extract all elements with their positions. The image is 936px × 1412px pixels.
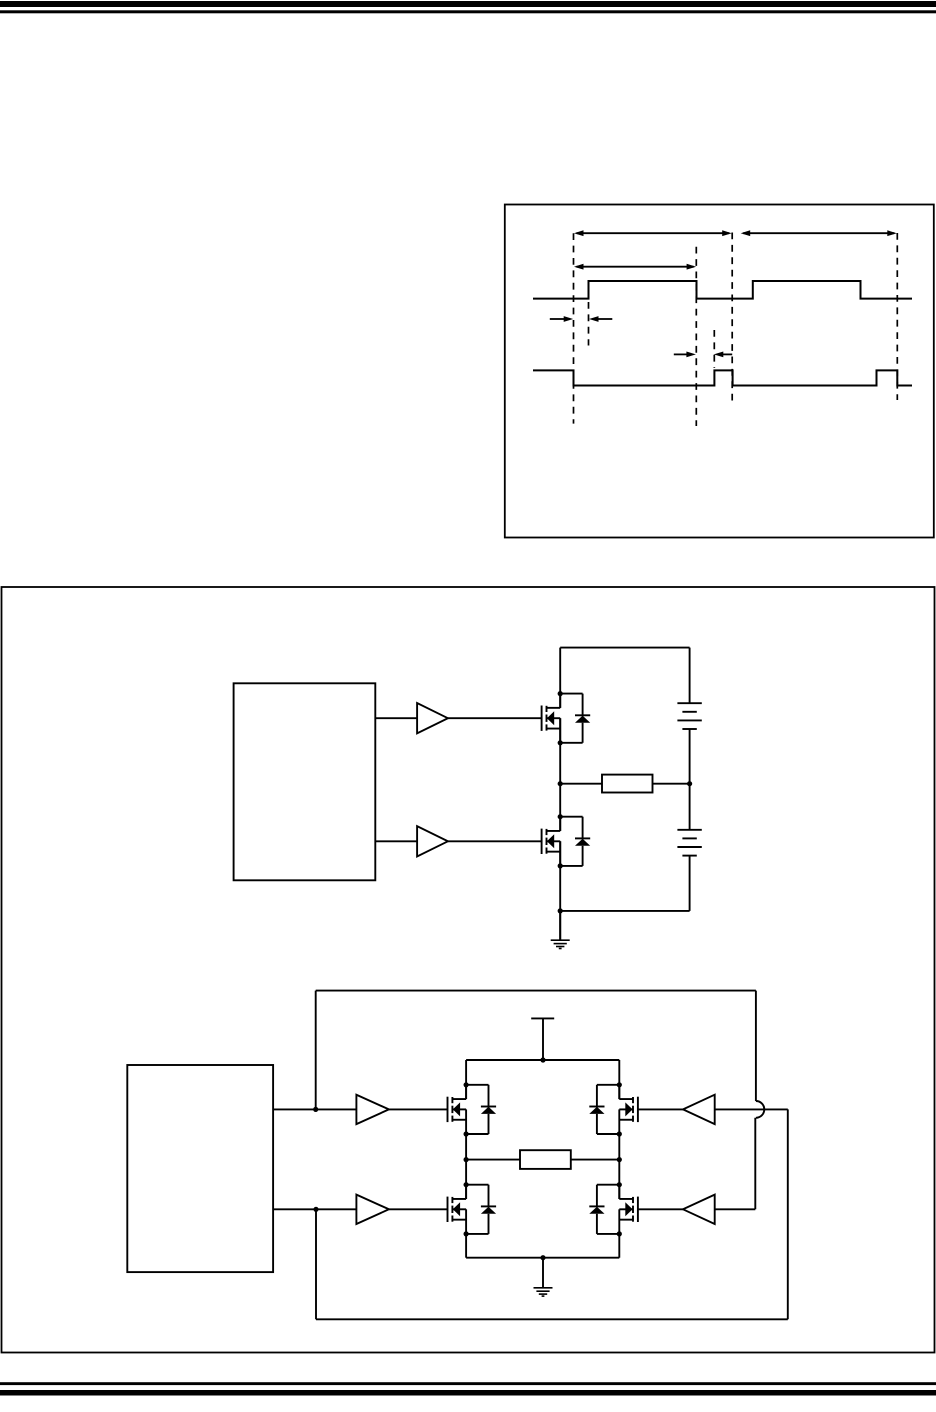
wire Q3 drain to positive rail xyxy=(465,1060,467,1099)
IC U1 (half-bridge driver) xyxy=(234,683,376,880)
body diode of Q1 xyxy=(560,694,590,743)
wire ground rail (bottom) xyxy=(560,910,689,912)
wire A3 output to Q3 gate xyxy=(389,1108,448,1110)
wire bridge ground rail xyxy=(466,1257,619,1259)
wire left phase column (Q3 source to Q5 drain) xyxy=(465,1134,467,1199)
transistor Q6 (N-MOSFET) xyxy=(619,1185,638,1234)
node: left phase junction xyxy=(464,1157,469,1162)
transistor Q1 (N-MOSFET) xyxy=(542,694,561,743)
timing mark t4 (dashed) xyxy=(731,233,733,405)
period arrow (second cycle) xyxy=(741,230,897,236)
wire A1 output to Q1 gate xyxy=(448,717,542,719)
delay arrow pair at t0/t1 xyxy=(550,316,613,322)
output waveform trace xyxy=(533,370,912,385)
Q5 drain junction xyxy=(464,1182,469,1187)
resistor R2 (bridge load) xyxy=(520,1150,571,1169)
buffer A2 xyxy=(417,826,448,856)
input waveform trace xyxy=(533,281,912,299)
wire Q1 drain to positive rail xyxy=(559,648,561,708)
wire right phase column (Q4 source to Q6 drain) xyxy=(618,1134,620,1199)
wire U1 output A to buffer A1 xyxy=(375,717,417,719)
delay arrow pair at t2/t3 xyxy=(674,352,732,358)
wire Q5 source to ground rail xyxy=(465,1234,467,1258)
Q6 source junction xyxy=(617,1231,622,1236)
body diode of Q3 xyxy=(466,1085,496,1134)
body diode of Q4 xyxy=(589,1085,619,1134)
wire A5 output to Q4 gate xyxy=(638,1108,683,1110)
wire phase node to load resistor xyxy=(560,783,602,785)
wire Q4 drain to positive rail xyxy=(618,1060,620,1099)
node: phase output junction xyxy=(558,781,563,786)
wire A6 output to Q6 gate xyxy=(638,1208,683,1210)
wire Q6 source to ground rail xyxy=(618,1234,620,1258)
timing mark t0 (dashed) xyxy=(573,233,575,423)
wire load resistor R2 to right phase xyxy=(571,1159,620,1161)
supply terminal V+ xyxy=(531,1018,554,1060)
battery B1 (upper supply) xyxy=(677,648,701,784)
node: ground rail center junction xyxy=(540,1255,545,1260)
wire feedback to inverter A6 input xyxy=(715,1208,756,1210)
wire U2 output B to buffer A4 xyxy=(273,1208,356,1210)
ground symbol GND1 xyxy=(551,911,570,949)
battery B2 (lower supply) xyxy=(677,784,701,911)
ground symbol GND2 xyxy=(534,1258,553,1296)
node: V+ rail junction xyxy=(540,1057,545,1062)
resistor R1 (load) xyxy=(602,775,653,793)
wire U1 output B to buffer A2 xyxy=(375,840,417,842)
timing mark t1 (dashed) xyxy=(588,302,590,346)
wire crossover hop (no connection) xyxy=(756,1101,764,1118)
Q3 source junction xyxy=(464,1131,469,1136)
Q4 source junction xyxy=(617,1131,622,1136)
transistor Q2 (N-MOSFET) xyxy=(542,817,561,866)
buffer A1 xyxy=(417,703,448,733)
period arrow (t0 to t4) xyxy=(574,230,732,236)
timing mark t3 (dashed) xyxy=(713,330,715,368)
wire feedback: down right side to crossover xyxy=(755,991,757,1101)
Q3 drain junction xyxy=(464,1082,469,1087)
inverter A5 (drives Q4 gate) xyxy=(683,1095,715,1124)
Q5 source junction xyxy=(464,1231,469,1236)
wire Q1 source to Q2 drain (phase node) xyxy=(559,718,561,831)
on-time arrow (t0 to t2) xyxy=(574,264,696,270)
wire positive rail (top) xyxy=(560,647,689,649)
Q1 drain junction xyxy=(558,691,563,696)
inverter A6 (drives Q6 gate) xyxy=(683,1195,715,1224)
wire Q2 source to ground rail xyxy=(559,841,561,940)
body diode of Q6 xyxy=(589,1185,619,1234)
wire A2 output to Q2 gate xyxy=(448,840,542,842)
wire load resistor to battery midpoint xyxy=(653,783,690,785)
wire feedback: output B down xyxy=(315,1209,317,1319)
transistor Q4 (N-MOSFET) xyxy=(619,1085,638,1134)
node: ground rail junction xyxy=(558,908,563,913)
buffer A4 xyxy=(356,1195,389,1224)
wire feedback: below crossover to A6 level xyxy=(754,1118,756,1210)
wire feedback to inverter A5 input xyxy=(715,1108,788,1110)
timing mark t2 (dashed) xyxy=(695,247,697,426)
wire left phase to load resistor R2 xyxy=(466,1159,520,1161)
wire U2 output A to buffer A3 xyxy=(273,1108,356,1110)
wire bridge positive rail xyxy=(466,1059,619,1061)
timing mark t5 (dashed) xyxy=(896,233,898,400)
transistor Q5 (N-MOSFET) xyxy=(448,1185,467,1234)
node: battery midpoint junction xyxy=(687,781,692,786)
Q2 source junction xyxy=(558,863,563,868)
Q4 drain junction xyxy=(617,1082,622,1087)
wire A4 output to Q5 gate xyxy=(389,1208,448,1210)
wire feedback: output B across bottom xyxy=(316,1318,788,1320)
node: right phase junction xyxy=(617,1157,622,1162)
Q2 drain junction xyxy=(558,814,563,819)
buffer A3 xyxy=(356,1095,389,1124)
wire feedback: output A up xyxy=(315,991,317,1110)
wire feedback: output A across top xyxy=(316,990,756,992)
body diode of Q2 xyxy=(560,817,590,866)
node: output A feedback junction xyxy=(313,1107,318,1112)
node: output B feedback junction xyxy=(313,1207,318,1212)
body diode of Q5 xyxy=(466,1185,496,1234)
Q1 source junction xyxy=(558,740,563,745)
wire feedback: up far right side xyxy=(787,1109,789,1319)
Q6 drain junction xyxy=(617,1182,622,1187)
IC U2 (full-bridge driver) xyxy=(127,1065,273,1272)
transistor Q3 (N-MOSFET) xyxy=(448,1085,467,1134)
